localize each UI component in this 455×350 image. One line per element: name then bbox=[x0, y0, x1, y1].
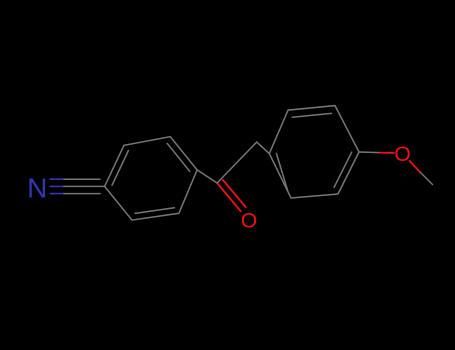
carbonyl C=O double bond (red) bbox=[217, 180, 246, 211]
nitrile triple bond gray halves bbox=[64, 179, 105, 193]
svg-text:O: O bbox=[241, 210, 257, 233]
bond ring2 to methoxy O (gray half) bbox=[359, 151, 380, 154]
ring1 inner aromatic lines bbox=[112, 151, 128, 186]
bond ring1 to carbonyl C bbox=[197, 170, 217, 183]
bond ring2 to methoxy O (red half) bbox=[380, 152, 394, 154]
benzene ring 2 bbox=[269, 106, 359, 198]
bond O to CH3 (red half) bbox=[410, 161, 421, 173]
bond O to CH3 (gray half) bbox=[421, 173, 433, 185]
bond carbonyl C to CH2 bbox=[217, 142, 257, 183]
bond CH2 to ring2 bbox=[257, 142, 270, 154]
svg-text:O: O bbox=[394, 143, 410, 166]
benzene ring 1 bbox=[105, 137, 198, 220]
nitrile triple bond blue halves bbox=[50, 179, 64, 193]
ring2 inner aromatic lines bbox=[292, 113, 331, 117]
svg-text:N: N bbox=[27, 172, 47, 203]
